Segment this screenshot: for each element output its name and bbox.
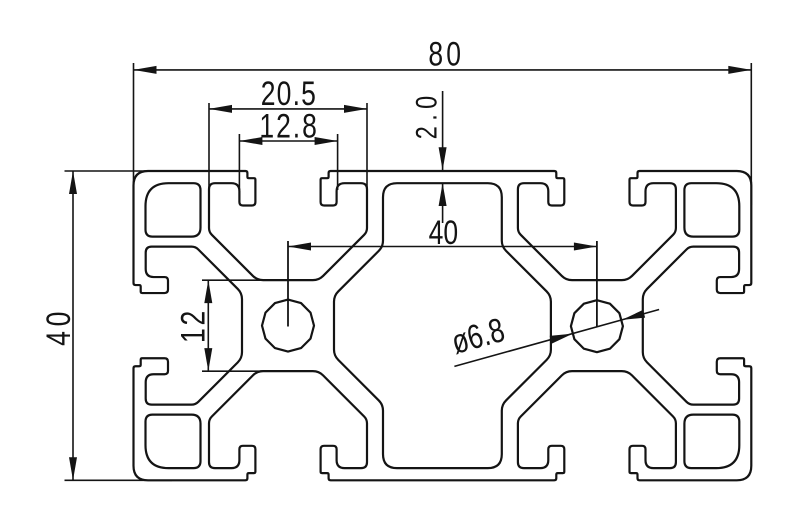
profile outer outline with T-slots <box>134 171 752 480</box>
dimension 80 line <box>134 69 752 71</box>
core hole left <box>262 300 314 352</box>
core hole right <box>571 300 623 352</box>
corner chamber bottom-left <box>146 415 201 468</box>
hole centerline left <box>287 241 289 327</box>
svg-text:2.0: 2.0 <box>410 90 443 139</box>
corner chamber top-right <box>684 183 739 236</box>
arrowheads dimension 80 <box>134 66 157 74</box>
dimension 12 extension lines <box>202 280 291 371</box>
hole centerline right <box>596 241 598 327</box>
arrowheads dimension 40 left <box>69 171 77 194</box>
arrowheads dimension 40 middle <box>288 243 311 251</box>
svg-text:40: 40 <box>429 214 459 252</box>
svg-text:40: 40 <box>40 307 78 346</box>
dimension 12.8 extension lines <box>239 134 337 190</box>
dimension 20.5 line <box>209 108 367 110</box>
arrowheads dia 6.8 <box>550 334 573 344</box>
dimension 20.5 extension lines <box>209 103 367 229</box>
svg-text:80: 80 <box>428 35 464 73</box>
dimension 40 left line <box>72 171 74 480</box>
dimension 2.0 lines <box>442 91 444 223</box>
central cavity <box>334 183 551 468</box>
dimension 80 extension lines <box>134 63 752 205</box>
arrowheads dimension 12 <box>204 280 212 303</box>
svg-text:12.8: 12.8 <box>259 108 318 146</box>
corner chamber bottom-right <box>684 415 739 468</box>
svg-text:12: 12 <box>174 308 212 343</box>
dimension 12.8 line <box>239 140 337 142</box>
dimension 12 line <box>207 280 209 371</box>
arrowheads dimension 20.5 <box>209 105 232 113</box>
arrowheads dimension 12.8 <box>239 137 262 145</box>
dimension 40 middle line <box>288 246 597 248</box>
arrowheads dimension 2.0 <box>439 147 447 170</box>
dimension 40 left extension lines <box>65 171 173 480</box>
leader line dia 6.8 <box>454 310 659 367</box>
corner chamber top-left <box>146 183 201 236</box>
